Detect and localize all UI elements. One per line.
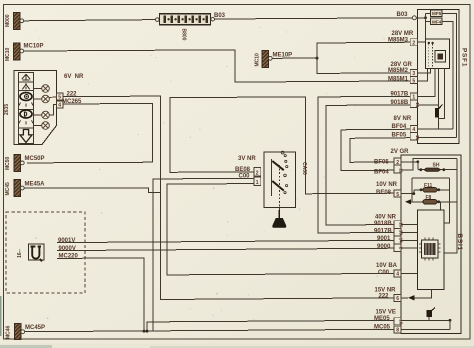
- svg-text:M85M3: M85M3: [388, 37, 409, 43]
- wire 9000V: [57, 248, 395, 250]
- svg-text:MC45: MC45: [5, 182, 11, 196]
- svg-text:MC10P: MC10P: [24, 44, 44, 50]
- BSI module box: [418, 210, 445, 290]
- ground ME10 (middle): [255, 51, 293, 68]
- PSF1 pin M85M2: [410, 69, 417, 76]
- svg-text:MF4: MF4: [432, 19, 442, 24]
- svg-text:28V GR: 28V GR: [391, 62, 413, 68]
- svg-text:C00: C00: [239, 174, 251, 180]
- svg-text:MC50P: MC50P: [25, 156, 45, 162]
- svg-text:9000: 9000: [377, 244, 391, 250]
- BSI pin BF05 2: [394, 158, 401, 165]
- fuse MF4: [431, 18, 443, 24]
- BSI pin 9000 2: [394, 244, 401, 252]
- box BSI1: [401, 155, 463, 334]
- svg-text:9017B: 9017B: [374, 228, 392, 234]
- switch CA00: [235, 152, 307, 208]
- BSI pin BE08 5: [394, 190, 401, 197]
- svg-text:9017B: 9017B: [391, 92, 409, 98]
- lamp 2: [34, 95, 57, 103]
- svg-text:8V NR: 8V NR: [394, 116, 412, 122]
- BSI pin5 wire into F11: [401, 190, 414, 194]
- svg-text:2V GR: 2V GR: [391, 149, 410, 155]
- PSF1 entry split: [416, 17, 425, 19]
- svg-text:16--: 16--: [17, 249, 23, 258]
- PSF1 pin M85M1: [410, 76, 417, 83]
- svg-text:BE08: BE08: [376, 190, 392, 196]
- svg-text:1: 1: [256, 180, 259, 186]
- fuse F8: [405, 195, 457, 205]
- svg-text:BF05: BF05: [392, 132, 407, 138]
- node MC220 to MC46P: [143, 330, 146, 333]
- svg-text:ME10P: ME10P: [273, 53, 293, 59]
- svg-text:BE08: BE08: [235, 167, 251, 173]
- node ME10P junction: [316, 57, 319, 60]
- svg-text:15V VE: 15V VE: [376, 310, 396, 316]
- BSI pin 222 6: [394, 294, 401, 301]
- svg-text:BF04: BF04: [374, 170, 389, 176]
- MC05 row inside: [401, 328, 450, 330]
- svg-text:4: 4: [396, 272, 399, 278]
- svg-text:MC10: MC10: [255, 53, 261, 67]
- PSF1 pin 9018B: [410, 100, 417, 108]
- BSI interior: pin11 riser: [401, 159, 457, 171]
- svg-text:B03: B03: [397, 12, 409, 18]
- pin 5 of 2635: [57, 93, 64, 100]
- wire MC10P: [24, 50, 411, 82]
- PSF1 pin BF04: [410, 126, 417, 133]
- pin 1 of CA00: [254, 177, 261, 185]
- CA00 contacts: [271, 151, 288, 210]
- svg-text:MC05: MC05: [374, 324, 391, 330]
- wire 9001V: [57, 240, 395, 242]
- wire BF05 PSF1 to BSI: [350, 138, 411, 163]
- svg-text:2635: 2635: [4, 104, 10, 115]
- svg-text:11: 11: [399, 168, 404, 173]
- svg-text:16: 16: [415, 102, 420, 108]
- 2635 symbol beam: [22, 84, 29, 89]
- svg-text:10V NR: 10V NR: [376, 182, 398, 188]
- svg-text:2: 2: [412, 40, 415, 46]
- svg-text:4: 4: [58, 103, 61, 109]
- svg-text:M85M2: M85M2: [388, 68, 409, 74]
- svg-text:5: 5: [396, 192, 399, 198]
- wire C00 to BSI pin 4: [167, 184, 395, 275]
- ground MC50: [5, 155, 45, 172]
- fuse F11: [414, 183, 450, 192]
- fuse MF5: [431, 10, 443, 16]
- svg-text:M85M1: M85M1: [388, 76, 409, 82]
- svg-text:6: 6: [396, 296, 399, 302]
- svg-text:8: 8: [396, 328, 399, 334]
- svg-text:CA00: CA00: [301, 162, 307, 175]
- BSI right bus: [444, 159, 457, 254]
- svg-text:9018B: 9018B: [374, 221, 392, 227]
- svg-text:MC50: MC50: [5, 156, 11, 170]
- svg-text:B800: B800: [181, 29, 187, 41]
- wire MC265 to MC50: [27, 103, 153, 162]
- svg-text:MC45P: MC45P: [25, 325, 45, 331]
- svg-text:5: 5: [58, 95, 61, 101]
- wire ME45A: [24, 188, 160, 193]
- svg-text:MC10: MC10: [5, 47, 11, 61]
- wire MF5 out: [442, 13, 457, 137]
- svg-text:2: 2: [256, 170, 259, 176]
- PSF1 BF04 row: [418, 128, 454, 130]
- wire ME10P: [272, 57, 317, 59]
- svg-text:15: 15: [415, 135, 420, 141]
- PSF1 pin M85M3: [410, 39, 417, 46]
- 2635 symbol eye 1: [19, 93, 33, 107]
- svg-text:BF05: BF05: [374, 159, 389, 165]
- svg-text:5: 5: [412, 78, 415, 84]
- ground M000: [5, 13, 24, 30]
- svg-text:MC46: MC46: [6, 325, 12, 339]
- connector B800: [156, 14, 215, 41]
- wire riser to ME05: [147, 320, 395, 331]
- PSF1 pin BF05: [410, 133, 417, 141]
- scan artifacts: [0, 344, 474, 348]
- svg-text:222: 222: [379, 294, 390, 300]
- module right link: [444, 222, 450, 224]
- svg-text:PSF1: PSF1: [461, 48, 468, 67]
- PSF1 internal pin wires: [418, 41, 426, 43]
- PSF1 BF05 row: [418, 137, 457, 139]
- svg-text:40V NR: 40V NR: [375, 215, 397, 221]
- svg-text:6V NR: 6V NR: [64, 74, 84, 80]
- lamp 1: [34, 85, 50, 93]
- IC chip: [419, 238, 441, 261]
- svg-text:ME45A: ME45A: [25, 181, 46, 187]
- ground MC10: [5, 43, 44, 61]
- wire BF04 PSF1 to BSI: [341, 129, 411, 171]
- wire 9018B PSF1 to BSI: [326, 105, 411, 225]
- wire MC46P: [25, 329, 395, 331]
- lamp 3: [34, 104, 57, 118]
- pin 4 of 2635: [57, 101, 64, 108]
- wire C00 ground branch: [153, 178, 254, 331]
- node riser ME05: [146, 330, 149, 333]
- connector circle at PSF1: [412, 16, 416, 20]
- svg-text:9018B: 9018B: [391, 100, 409, 106]
- BSI pin ME05 10: [394, 318, 401, 325]
- key symbol: [272, 210, 286, 228]
- buzzer symbol: [427, 308, 436, 321]
- pin6 arrow row: [401, 290, 432, 301]
- wire B800 to PSF1: [215, 18, 413, 19]
- wire M000 to B800: [24, 20, 160, 21]
- svg-text:M000: M000: [5, 14, 11, 27]
- wire to M85M3: [317, 42, 411, 58]
- BSI pin 9018B 15: [394, 221, 401, 229]
- svg-text:C00: C00: [378, 270, 390, 276]
- svg-text:B03: B03: [214, 13, 226, 19]
- BSI pin 9001 14: [394, 236, 401, 244]
- svg-text:BF04: BF04: [392, 124, 407, 130]
- wire BE08 loop over CA00: [170, 97, 395, 194]
- unit 16 dashed box: [6, 212, 85, 293]
- BSI pin MC05 8: [394, 326, 401, 333]
- ME05 row inside: [401, 319, 450, 321]
- BSI pin C00 4: [394, 270, 401, 277]
- svg-text:28V MR: 28V MR: [392, 31, 414, 37]
- relay contact symbol: [435, 69, 445, 130]
- ground MC46: [6, 324, 46, 340]
- svg-text:10V BA: 10V BA: [376, 263, 398, 269]
- PSF1 pin 9017B: [410, 93, 417, 100]
- wire 222 from 2635: [63, 96, 395, 299]
- BSI row wires into module: [401, 224, 418, 226]
- 2635 symbol big down arrow: [20, 130, 32, 143]
- svg-text:15V NR: 15V NR: [375, 287, 397, 293]
- BSI pin 9017B 13: [394, 228, 401, 236]
- lamp 4: [34, 122, 50, 130]
- svg-text:ME05: ME05: [374, 316, 390, 322]
- svg-text:MF5: MF5: [432, 11, 442, 16]
- box PSF1: [418, 10, 468, 144]
- connector 2635: [4, 71, 57, 145]
- svg-text:9001: 9001: [377, 236, 391, 242]
- pin 2 of CA00: [254, 168, 261, 176]
- fuse SH: [418, 163, 457, 172]
- wire MC220: [57, 258, 144, 331]
- 2635 symbol eye 2: [19, 110, 33, 125]
- BSI interior: pin2 row: [401, 161, 418, 163]
- wire MF4 out: [442, 22, 453, 130]
- relay box in PSF1: [426, 39, 450, 69]
- F11 upper loop: [412, 177, 450, 179]
- svg-text:3V NR: 3V NR: [238, 156, 256, 162]
- BSI pin BF04 11: [394, 165, 401, 173]
- wire to M85M2: [317, 58, 411, 73]
- paper speckles: [25, 27, 449, 334]
- 2635 symbol washer: [22, 74, 30, 80]
- F8 to module: [440, 202, 442, 210]
- ground ME45: [5, 180, 45, 197]
- wire 9017B PSF1 to BSI: [318, 96, 411, 233]
